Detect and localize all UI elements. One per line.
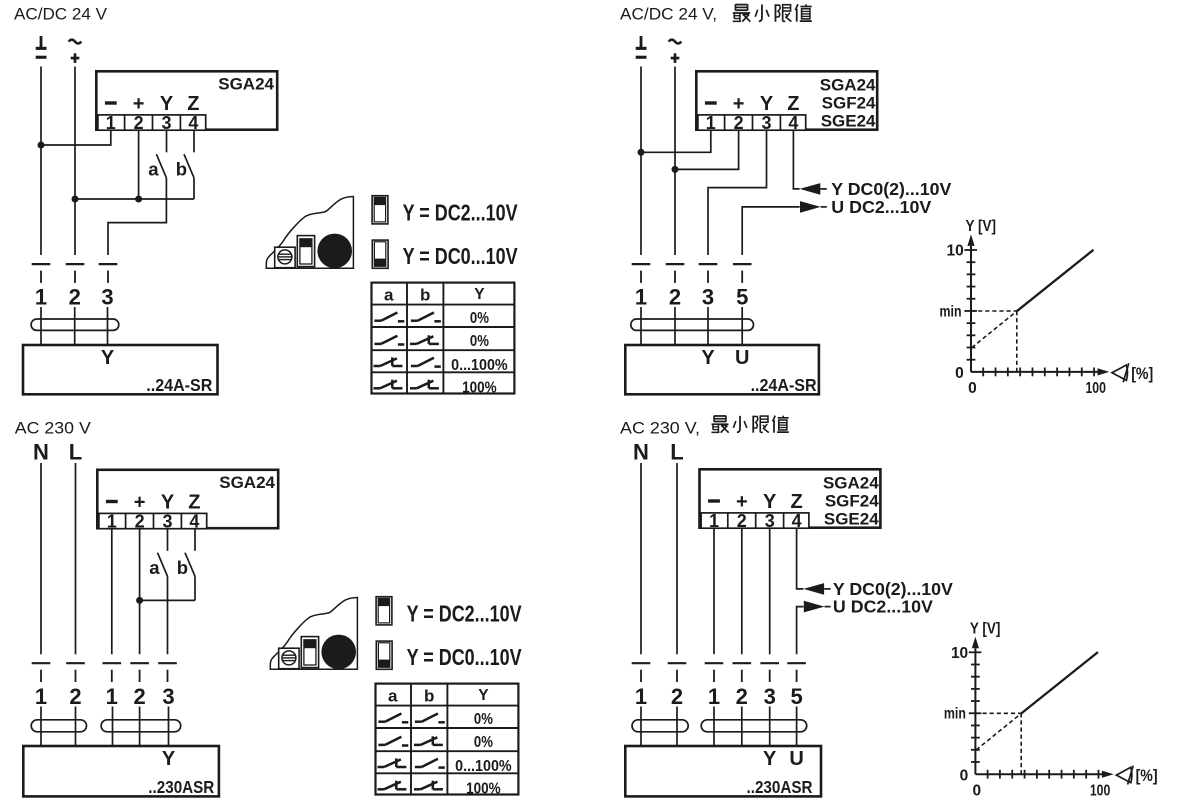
signal arrow Y: [800, 183, 827, 195]
wire pin4 to Y arrow: [793, 131, 799, 189]
junction dot pin2/rail: [136, 597, 143, 604]
wire pin1 to ground: [641, 131, 711, 152]
svg-text:Z: Z: [188, 492, 200, 514]
svg-text:a: a: [388, 686, 398, 705]
svg-text:3: 3: [162, 684, 174, 709]
wire break 3: [760, 663, 779, 682]
graph dashed min vertical: [1020, 713, 1022, 774]
wire pin3 jog down: [708, 131, 767, 255]
svg-text:SGE24: SGE24: [824, 510, 879, 529]
graph label Y [V]: [966, 218, 997, 235]
svg-text:3: 3: [764, 684, 776, 709]
cable number 1: [708, 684, 720, 709]
wire break 5: [787, 663, 806, 682]
svg-text:Y: Y: [478, 687, 489, 704]
label L: [670, 439, 683, 464]
svg-text:0%: 0%: [474, 711, 493, 728]
terminal strip pins 1 2 3 4: [701, 511, 809, 531]
svg-text:2: 2: [69, 284, 81, 309]
wire 3 into actuator: [769, 707, 771, 746]
label ..230ASR: [747, 777, 813, 797]
actuator terminal labels Y/U: [701, 347, 749, 369]
switch b: [185, 553, 195, 577]
svg-text:0%: 0%: [474, 734, 493, 751]
truth table grid: [371, 283, 514, 394]
label Y = DC0...10V: [403, 243, 519, 269]
graph label [%]: [1131, 365, 1153, 383]
graph X axis: [975, 773, 1102, 775]
label U DC2...10V: [831, 197, 931, 217]
wire 3 into actuator: [168, 707, 170, 746]
svg-text:Y: Y: [161, 492, 175, 514]
junction dot pin2/rail: [135, 196, 142, 203]
graph label [%]: [1136, 767, 1158, 785]
title AC 230 V,: [620, 419, 700, 438]
svg-text:+: +: [133, 93, 145, 115]
graph label 100: [1090, 783, 1111, 800]
labels SGA24/SGF24/SGE24: [823, 473, 879, 528]
wire ground supply down: [640, 67, 642, 256]
wire N down: [640, 463, 642, 654]
svg-text:b: b: [176, 158, 187, 179]
table row 4 switch a symbol: [374, 380, 403, 389]
svg-text:N: N: [633, 439, 649, 464]
cable number 1 (N): [35, 684, 47, 709]
signal arrow U: [804, 601, 831, 613]
svg-text:Y = DC0...10V: Y = DC0...10V: [407, 644, 523, 670]
table row 2 switch b symbol: [410, 335, 439, 344]
wire break 2: [130, 663, 149, 682]
svg-text:10: 10: [947, 243, 964, 260]
wire pin4 to Y arrow: [797, 529, 804, 589]
svg-text:Y = DC2...10V: Y = DC2...10V: [403, 200, 519, 226]
graph dashed min vertical: [1016, 311, 1018, 372]
ground supply symbol: [36, 36, 47, 59]
svg-text:1: 1: [709, 511, 719, 531]
svg-text:0%: 0%: [470, 333, 489, 350]
table row 3 switch a symbol: [374, 357, 403, 366]
wire break 2: [733, 663, 752, 682]
svg-text:Y = DC0...10V: Y = DC0...10V: [403, 243, 519, 269]
wire pin1 to ground: [41, 131, 111, 145]
DIP switch symbol down: [376, 641, 392, 669]
graph label 0 on Y axis: [955, 365, 964, 382]
svg-text:1: 1: [635, 684, 647, 709]
cable number 3: [162, 684, 174, 709]
table row 3 value 0...100%: [455, 758, 512, 775]
junction dot pin2/+: [672, 166, 679, 173]
table row 2 switch a symbol: [374, 336, 404, 345]
DIP switch symbol up: [376, 597, 392, 625]
svg-text:[%]: [%]: [1136, 767, 1158, 785]
graph Y axis arrow: [967, 234, 974, 246]
svg-text:3: 3: [702, 284, 714, 309]
title CJK min-limit: [733, 4, 812, 21]
title AC/DC 24 V,: [620, 5, 717, 24]
svg-text:Y: Y: [760, 93, 774, 115]
svg-text:+: +: [134, 492, 146, 514]
wire pin2 down: [139, 530, 141, 655]
actuator terminal labels Y: [162, 748, 176, 770]
graph Y axis: [970, 246, 972, 372]
graph label 0 on Y axis: [960, 767, 969, 784]
svg-text:1: 1: [706, 113, 716, 133]
truth table grid: [375, 684, 518, 795]
signal arrow Y: [803, 583, 830, 595]
svg-text:U DC2...10V: U DC2...10V: [831, 197, 931, 217]
svg-text:b: b: [424, 686, 434, 705]
wire pin1 down: [713, 529, 715, 654]
terminal name labels - + Y Z: [106, 492, 201, 514]
table row 1 value 0%: [474, 711, 493, 728]
svg-text:N: N: [33, 439, 49, 464]
wire break L: [66, 663, 85, 682]
signal arrow U: [800, 201, 827, 213]
cable number 1: [635, 284, 647, 309]
wire 1 into actuator: [112, 707, 114, 746]
graph dashed start segment: [972, 311, 1017, 347]
svg-text:4: 4: [189, 511, 199, 531]
svg-text:+: +: [736, 491, 748, 513]
svg-text:..24A-SR: ..24A-SR: [751, 375, 817, 395]
wire 5 into actuator: [796, 707, 798, 746]
wire break 1: [32, 264, 51, 283]
wire switch a down: [167, 576, 169, 654]
label U DC2...10V: [833, 597, 933, 617]
svg-text:100%: 100%: [466, 780, 501, 797]
controller U box SGA24: [97, 470, 278, 528]
svg-text:Y [V]: Y [V]: [966, 218, 997, 235]
graph X ticks: [988, 770, 1099, 779]
svg-text:U: U: [735, 347, 749, 369]
wire break 5: [733, 264, 752, 283]
wire switch b to rail: [194, 576, 196, 600]
svg-text:2: 2: [737, 511, 747, 531]
graph X axis arrow: [1098, 368, 1110, 375]
cable number 3: [101, 284, 113, 309]
wire N down: [40, 463, 42, 654]
svg-text:b: b: [420, 285, 430, 304]
svg-text:3: 3: [761, 113, 771, 133]
graph Y axis: [974, 648, 976, 774]
actuator icon outline: [270, 598, 357, 670]
wire pin2 down: [138, 131, 140, 199]
label ..230ASR: [148, 777, 214, 797]
switch a: [156, 154, 166, 178]
table row 2 value 0%: [470, 333, 489, 350]
actuator box ..24A-SR: [625, 345, 819, 394]
svg-text:a: a: [149, 557, 160, 578]
svg-text:4: 4: [188, 113, 198, 133]
wire + supply down: [74, 67, 76, 256]
svg-text:SGA24: SGA24: [218, 74, 274, 93]
wire 2 into actuator: [139, 707, 141, 746]
graph Y axis arrow: [972, 637, 979, 649]
svg-text:4: 4: [792, 511, 802, 531]
terminal name labels - + Y Z: [705, 93, 800, 115]
graph label 0 on X axis: [968, 380, 977, 397]
svg-text:1: 1: [635, 284, 647, 309]
wire L into actuator: [676, 707, 678, 746]
graph dashed min horizontal: [975, 712, 1021, 714]
svg-text:Y = DC2...10V: Y = DC2...10V: [407, 601, 523, 627]
wire N into actuator: [640, 707, 642, 746]
junction dot pin1/ground: [638, 149, 645, 156]
ground supply symbol: [636, 36, 647, 59]
svg-text:100: 100: [1085, 380, 1106, 397]
cable number 2: [69, 284, 81, 309]
svg-text:SGE24: SGE24: [821, 112, 876, 131]
wire switch b to rail: [193, 178, 195, 199]
svg-text:Y [V]: Y [V]: [970, 620, 1001, 637]
actuator box ..24A-SR: [23, 345, 218, 394]
svg-text:Z: Z: [187, 93, 199, 115]
svg-text:2: 2: [669, 284, 681, 309]
icon knob: [317, 234, 352, 269]
svg-text:a: a: [384, 285, 394, 304]
wire L down: [75, 463, 77, 654]
svg-text:1: 1: [708, 684, 720, 709]
wire + supply down: [674, 67, 676, 256]
wire 3 into actuator: [107, 307, 109, 344]
switch a: [158, 553, 168, 577]
terminal strip pins 1 2 3 4: [698, 113, 806, 133]
cable number 3: [702, 284, 714, 309]
graph Y ticks: [964, 250, 977, 360]
DIP switch symbol up: [372, 196, 388, 224]
wire U up and right: [742, 207, 800, 255]
svg-text:2: 2: [133, 684, 145, 709]
wire pin2 to +: [675, 131, 739, 169]
table row 1 switch b symbol: [415, 714, 445, 723]
wire pin4 stub: [194, 530, 196, 551]
graph dashed start segment: [976, 714, 1021, 750]
table row 4 value 100%: [466, 780, 501, 797]
graph solid curve: [1021, 652, 1098, 713]
cable clamp oval 1 2 3: [101, 720, 181, 732]
graph solid curve: [1017, 250, 1094, 311]
table row 3 value 0...100%: [451, 357, 508, 374]
switch b: [184, 154, 194, 178]
label Y DC0(2)...10V: [833, 579, 953, 599]
cable clamp oval: [31, 319, 119, 330]
icon terminal block: [275, 247, 295, 268]
wire pin2 down: [741, 529, 743, 654]
graph Y ticks: [969, 652, 982, 762]
table row 4 value 100%: [462, 379, 497, 396]
svg-text:0...100%: 0...100%: [455, 758, 512, 775]
graph X ticks: [983, 368, 1094, 377]
junction dot +/rail: [72, 196, 79, 203]
cable number 2 (L): [671, 684, 683, 709]
damper symbol: [1116, 766, 1133, 785]
svg-text:0: 0: [972, 783, 981, 800]
icon screw: [282, 651, 296, 665]
svg-text:U DC2...10V: U DC2...10V: [833, 597, 933, 617]
svg-text:3: 3: [161, 113, 171, 133]
svg-text:min: min: [944, 706, 966, 723]
svg-text:1: 1: [106, 684, 118, 709]
svg-text:SGA24: SGA24: [219, 473, 275, 492]
svg-text:AC 230 V: AC 230 V: [15, 419, 92, 438]
label a: [148, 158, 159, 179]
cable number 1: [35, 284, 47, 309]
svg-text:100: 100: [1090, 783, 1111, 800]
wire break 2: [666, 264, 685, 283]
svg-text:100%: 100%: [462, 379, 497, 396]
table row 3 switch b symbol: [411, 358, 441, 367]
title AC 230 V: [15, 419, 92, 438]
title AC/DC 24 V: [14, 5, 108, 24]
label Y DC0(2)...10V: [831, 179, 951, 199]
wire L down: [676, 463, 678, 654]
table row 1 switch b symbol: [411, 313, 441, 322]
cable number 1: [106, 684, 118, 709]
cable number 2 (L): [69, 684, 81, 709]
actuator terminal labels Y/U: [763, 748, 804, 770]
cable number 5: [790, 684, 802, 709]
table row 2 switch b symbol: [414, 736, 443, 745]
table row 3 switch a symbol: [378, 758, 407, 767]
wire ground supply down: [40, 67, 42, 256]
svg-text:2: 2: [135, 511, 145, 531]
svg-text:SGF24: SGF24: [822, 94, 876, 113]
wire pin4 stub: [193, 131, 195, 152]
svg-text:[%]: [%]: [1131, 365, 1153, 383]
graph label 0 on X axis: [972, 783, 981, 800]
cable number 3: [764, 684, 776, 709]
damper symbol: [1112, 363, 1129, 382]
DIP switch symbol down: [372, 240, 388, 268]
icon DIP switch: [301, 637, 318, 668]
svg-text:5: 5: [736, 284, 748, 309]
controller U box SGA24: [96, 71, 277, 129]
svg-text:L: L: [69, 439, 82, 464]
terminal strip pins 1 2 3 4: [98, 113, 206, 133]
cable number 2: [133, 684, 145, 709]
table header a b Y: [388, 686, 489, 705]
svg-text:U: U: [789, 748, 803, 770]
table row 2 switch a symbol: [378, 737, 408, 746]
table row 3 switch b symbol: [415, 759, 445, 768]
svg-text:Y: Y: [160, 93, 174, 115]
icon terminal block: [279, 648, 299, 669]
actuator terminal labels Y: [101, 347, 115, 369]
svg-text:4: 4: [788, 113, 798, 133]
wire break 2: [66, 264, 85, 283]
svg-text:0: 0: [960, 767, 969, 784]
svg-text:Y: Y: [162, 748, 176, 770]
wire 5 into actuator: [741, 307, 743, 344]
svg-text:SGA24: SGA24: [823, 473, 879, 492]
label SGA24: [219, 473, 275, 492]
svg-text:2: 2: [734, 113, 744, 133]
svg-text:SGF24: SGF24: [825, 492, 879, 511]
title CJK min-limit: [711, 416, 788, 433]
graph label Y [V]: [970, 620, 1001, 637]
wire break 3: [699, 264, 718, 283]
label Y = DC2...10V: [403, 200, 519, 226]
svg-text:2: 2: [69, 684, 81, 709]
svg-text:..24A-SR: ..24A-SR: [146, 375, 212, 395]
graph dashed min horizontal: [971, 310, 1017, 312]
svg-text:0%: 0%: [470, 310, 489, 327]
wire switch a output jog: [108, 178, 166, 255]
wire break N: [32, 663, 51, 682]
wire break 3: [99, 264, 118, 283]
actuator icon outline: [266, 197, 353, 269]
cable clamp oval 1 2 3 5: [701, 720, 807, 732]
label a: [149, 557, 160, 578]
label b: [177, 557, 188, 578]
svg-text:Y: Y: [763, 491, 777, 513]
cable number 5: [736, 284, 748, 309]
AC/DC + supply symbol: [669, 40, 682, 63]
wire 3 into actuator: [707, 307, 709, 344]
svg-text:AC/DC 24 V: AC/DC 24 V: [14, 5, 108, 24]
svg-text:1: 1: [106, 113, 116, 133]
table row 1 switch a symbol: [374, 313, 404, 322]
table row 4 switch b symbol: [410, 380, 439, 389]
icon knob: [321, 635, 356, 670]
wire + rail: [75, 198, 194, 200]
icon screw: [278, 250, 292, 264]
wire pin1 down: [111, 530, 113, 655]
svg-text:AC 230 V,: AC 230 V,: [620, 419, 700, 438]
wire 1 into actuator: [713, 707, 715, 746]
cable number 2: [736, 684, 748, 709]
wire 2 into actuator: [741, 707, 743, 746]
label N: [633, 439, 649, 464]
svg-text:min: min: [940, 303, 962, 320]
wire break 1: [705, 663, 724, 682]
wire U up and right: [797, 607, 804, 655]
svg-text:1: 1: [35, 684, 47, 709]
actuator box ..230ASR: [23, 746, 219, 796]
svg-text:0...100%: 0...100%: [451, 357, 508, 374]
wire L into actuator: [75, 707, 77, 746]
graph label min: [940, 303, 962, 320]
svg-text:L: L: [670, 439, 683, 464]
label b: [176, 158, 187, 179]
wire pin3 down: [769, 529, 771, 654]
svg-text:Y: Y: [701, 347, 715, 369]
svg-text:AC/DC 24 V,: AC/DC 24 V,: [620, 5, 717, 24]
svg-text:Y: Y: [101, 347, 115, 369]
terminal name labels - + Y Z: [105, 93, 200, 115]
svg-text:5: 5: [790, 684, 802, 709]
terminal strip pins 1 2 3 4: [99, 511, 207, 531]
wire break 1: [632, 264, 651, 283]
svg-text:..230ASR: ..230ASR: [148, 777, 214, 797]
table row 4 switch b symbol: [414, 781, 443, 790]
cable number 1 (N): [635, 684, 647, 709]
wire 1 into actuator: [640, 307, 642, 344]
svg-text:SGA24: SGA24: [820, 75, 876, 94]
label ..24A-SR: [146, 375, 212, 395]
graph label 10: [951, 645, 968, 662]
graph label 10: [947, 243, 964, 260]
label SGA24: [218, 74, 274, 93]
wire rail to switch b: [140, 599, 195, 601]
wire 2 into actuator: [74, 307, 76, 344]
cable clamp oval N L: [632, 720, 688, 732]
wire 2 into actuator: [674, 307, 676, 344]
svg-text:3: 3: [765, 511, 775, 531]
wire break 1: [103, 663, 122, 682]
graph X axis arrow: [1102, 771, 1114, 778]
table header a b Y: [384, 285, 485, 304]
